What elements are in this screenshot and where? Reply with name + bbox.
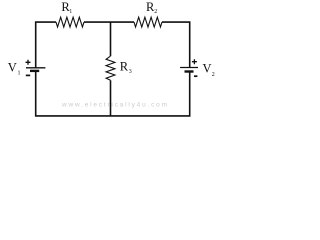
V2 plus sign: [192, 59, 197, 64]
wire: R3 bottom lead down to node B: [110, 80, 112, 116]
svg-text:3: 3: [129, 69, 132, 75]
node B: bottom junction to V2 negative terminal: [111, 72, 190, 116]
V1 plus sign: [26, 60, 31, 65]
resistor R1: [56, 17, 84, 27]
svg-text:1: 1: [69, 9, 72, 15]
wire: R2 right lead across and down to V2 positive terminal: [162, 22, 190, 67]
battery V1: [26, 60, 46, 76]
svg-text:1: 1: [18, 70, 21, 76]
resistor R3: [106, 56, 115, 80]
node A: top junction: [111, 21, 135, 23]
V1 long positive plate: [26, 67, 45, 69]
V1 short negative plate: [30, 70, 39, 72]
resistor R2: [134, 17, 162, 27]
wire: node A down to R3 top lead: [110, 22, 112, 56]
wire: V1 negative terminal down and across to node B: [36, 71, 111, 116]
svg-text:V: V: [203, 61, 212, 75]
V2 minus sign: [194, 75, 197, 77]
svg-text:R: R: [120, 59, 129, 73]
svg-text:2: 2: [154, 9, 157, 15]
svg-text:www.electrically4u.com: www.electrically4u.com: [61, 102, 169, 109]
wire: V1 positive terminal up and across to R1 left lead: [36, 22, 56, 68]
V2 long positive plate: [180, 67, 198, 69]
battery V2: [180, 59, 198, 76]
svg-text:2: 2: [212, 72, 215, 78]
V1 minus sign: [26, 74, 30, 76]
svg-text:V: V: [8, 61, 17, 75]
wire: R1 right lead to node A: [84, 21, 111, 23]
V2 short negative plate: [185, 70, 194, 72]
